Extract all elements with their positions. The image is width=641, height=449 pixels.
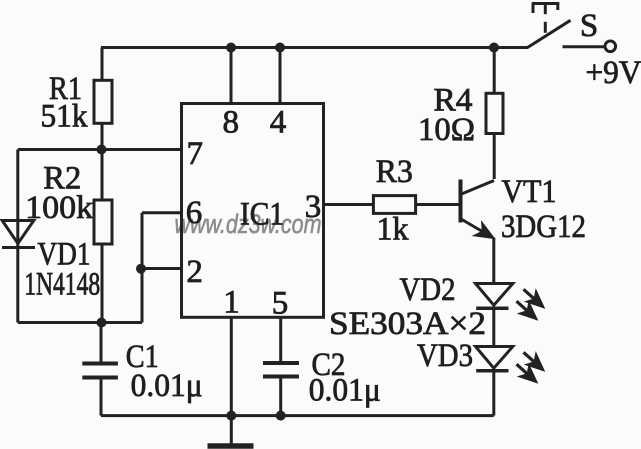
resistor R1 [94, 48, 112, 150]
svg-text:4: 4 [270, 105, 287, 141]
wire pin7 run [18, 148, 182, 151]
svg-text:0.01μ: 0.01μ [131, 368, 203, 404]
svg-text:0.01μ: 0.01μ [309, 373, 381, 409]
svg-text:VT1: VT1 [502, 174, 557, 210]
transistor VT1 [458, 180, 495, 284]
svg-text:1k: 1k [377, 212, 409, 248]
wire pin3 run [324, 203, 374, 206]
LED VD2 [476, 284, 547, 323]
resistor R3 [373, 196, 459, 214]
svg-text:5: 5 [272, 286, 289, 322]
IC U1 IC1 box [182, 104, 324, 318]
capacitor C1 [82, 323, 118, 416]
svg-text:VD3: VD3 [417, 338, 473, 374]
resistor R2 [94, 150, 112, 323]
node C2 on bottom rail [276, 411, 286, 421]
LED VD3 [476, 347, 547, 386]
svg-text:IC1: IC1 [240, 197, 284, 233]
wire pin2 run [142, 267, 182, 270]
wire pin6 run [142, 213, 182, 323]
svg-text:+9V: +9V [586, 55, 641, 91]
node R2/C1 junction [97, 318, 107, 328]
svg-text:51k: 51k [41, 99, 88, 135]
wire top supply rail [101, 46, 528, 49]
wire lower-left horizontal [18, 321, 142, 324]
svg-text:1N4148: 1N4148 [24, 267, 100, 303]
node supply/R4/switch junction [489, 43, 499, 53]
svg-text:SE303A×2: SE303A×2 [329, 306, 486, 342]
node pin8 on rail [226, 43, 236, 53]
svg-text:R3: R3 [376, 154, 413, 190]
ground [208, 416, 254, 446]
svg-text:3DG12: 3DG12 [501, 209, 586, 245]
capacitor C2 [263, 317, 299, 415]
svg-text:100k: 100k [25, 190, 94, 226]
node pin1 on bottom rail [226, 411, 236, 421]
node pin2/pin6 junction [136, 264, 146, 274]
svg-text:2: 2 [186, 254, 203, 290]
switch S [528, 4, 616, 52]
node pin4 on rail [275, 43, 285, 53]
wire pin8 lead [230, 48, 233, 104]
node R1/R2/pin7 junction [97, 145, 107, 155]
svg-text:10Ω: 10Ω [418, 112, 475, 148]
wire left branch vertical [16, 150, 19, 323]
wire pin1 lead [230, 317, 233, 415]
svg-text:VD2: VD2 [400, 272, 456, 308]
wire bottom rail [101, 414, 494, 417]
wire pin4 lead [279, 48, 282, 104]
svg-text:1: 1 [223, 285, 240, 321]
diode VD1 [2, 221, 35, 248]
svg-text:S: S [580, 8, 598, 44]
wire between LEDs [492, 308, 495, 346]
svg-text:3: 3 [305, 189, 322, 225]
svg-text:6: 6 [186, 195, 203, 231]
svg-text:7: 7 [187, 136, 204, 172]
svg-text:8: 8 [222, 105, 239, 141]
wire LED bottom lead [492, 371, 495, 416]
resistor R4 [486, 48, 503, 180]
